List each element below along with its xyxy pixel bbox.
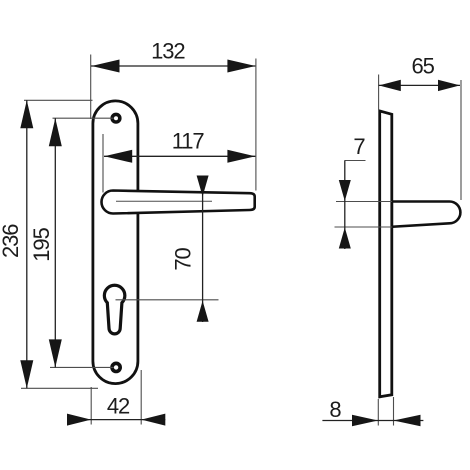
svg-text:8: 8 xyxy=(329,397,341,422)
svg-text:195: 195 xyxy=(29,227,54,261)
svg-text:70: 70 xyxy=(171,248,196,271)
svg-text:132: 132 xyxy=(151,38,185,63)
svg-text:117: 117 xyxy=(172,129,205,154)
svg-text:65: 65 xyxy=(412,54,435,79)
svg-text:42: 42 xyxy=(107,393,130,418)
svg-text:236: 236 xyxy=(0,224,23,258)
svg-text:7: 7 xyxy=(353,134,365,159)
